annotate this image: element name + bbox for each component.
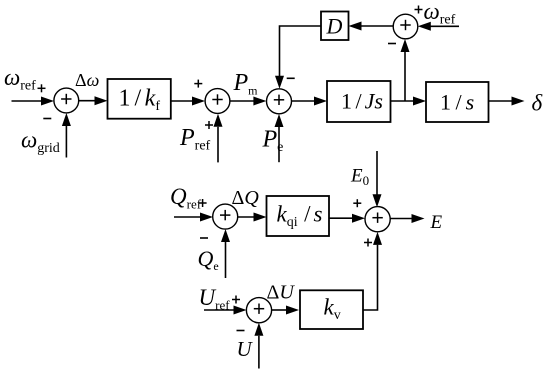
label E bbox=[430, 212, 443, 233]
summing junction S5 bbox=[213, 204, 238, 229]
block kqi/s bbox=[267, 196, 330, 236]
label Q_e bbox=[198, 246, 219, 273]
label omega_ref (left input) bbox=[4, 65, 36, 94]
minus sign at S1 bottom input bbox=[43, 118, 51, 120]
feedback wire D down to S3 bbox=[275, 26, 321, 89]
plus sign at S4 right input bbox=[415, 6, 423, 14]
summing junction S7 bbox=[246, 298, 271, 323]
block 1/s bbox=[426, 82, 489, 122]
svg-text:D: D bbox=[326, 14, 343, 39]
label P_m bbox=[233, 70, 259, 98]
label delta-U bbox=[267, 282, 296, 304]
svg-text:U: U bbox=[237, 337, 254, 361]
summing junction S3 bbox=[267, 89, 292, 114]
label omega_ref (top right) bbox=[424, 0, 456, 28]
plus sign at S2 bottom input bbox=[205, 121, 213, 129]
wire S4 to block D bbox=[349, 22, 394, 31]
wire P_ref into S2 bbox=[214, 114, 223, 163]
summing junction S4 (top right) bbox=[393, 14, 418, 39]
wire S3 to block 1/Js bbox=[292, 97, 328, 106]
wire kqi/s to S6 bbox=[329, 214, 365, 223]
wire S2 to S3 bbox=[230, 97, 266, 106]
svg-text:ΔQ: ΔQ bbox=[232, 187, 260, 209]
wire omega_grid into S1 bbox=[62, 113, 71, 158]
label U_ref bbox=[199, 285, 231, 313]
wire P_e into S3 bbox=[275, 114, 284, 162]
wire 1/s to delta output bbox=[489, 97, 525, 106]
minus sign at S3 top input bbox=[287, 77, 295, 79]
wire k_v up into S6 bbox=[363, 232, 382, 310]
plus sign at S6 left input bbox=[353, 199, 361, 207]
label delta-omega bbox=[75, 70, 99, 90]
wire Q_e into S5 bbox=[221, 229, 230, 278]
plus sign at S1 left input bbox=[38, 84, 46, 92]
svg-text:δ: δ bbox=[532, 91, 543, 116]
wire 1/Js to block 1/s with takeoff node bbox=[391, 97, 427, 106]
plus sign at S5 left input bbox=[199, 199, 207, 207]
block 1/kf bbox=[108, 79, 171, 119]
svg-text:E: E bbox=[430, 212, 443, 233]
wire S5 to block kqi/s bbox=[238, 213, 267, 222]
label U bbox=[237, 337, 254, 361]
minus sign at S5 bottom input bbox=[200, 237, 208, 239]
label delta bbox=[532, 91, 543, 116]
plus sign at S6 bottom input bbox=[364, 239, 372, 247]
block k_v bbox=[300, 290, 363, 329]
plus sign at S7 left input bbox=[232, 296, 240, 304]
label E_0 bbox=[350, 166, 369, 189]
wire U_ref into S7 bbox=[204, 306, 247, 315]
wire omega_ref into S1 bbox=[12, 97, 55, 106]
label delta-Q bbox=[232, 187, 260, 209]
minus sign at S7 bottom input bbox=[237, 330, 245, 332]
wire 1/kf to S2 bbox=[171, 97, 205, 106]
summing junction S2 bbox=[205, 89, 230, 114]
block 1/Js bbox=[327, 81, 391, 122]
summing junction S1 bbox=[54, 88, 79, 113]
wire U into S7 bbox=[254, 323, 263, 369]
minus sign at S4 bottom input bbox=[388, 43, 396, 45]
svg-text:Δω: Δω bbox=[75, 70, 99, 90]
wire E_0 into S6 bbox=[373, 151, 382, 207]
wire Q_ref into S5 bbox=[174, 213, 213, 222]
wire S1 to block 1/kf bbox=[79, 96, 108, 105]
svg-text:1/s: 1/s bbox=[440, 90, 474, 115]
svg-text:ΔU: ΔU bbox=[267, 282, 296, 304]
label Q_ref bbox=[170, 184, 202, 212]
wire takeoff up to S4 bbox=[401, 39, 410, 101]
wire S6 to E output bbox=[390, 214, 424, 223]
plus sign at S2 left input bbox=[194, 80, 202, 88]
wire S7 to block k_v bbox=[272, 306, 299, 315]
label P_ref bbox=[179, 125, 211, 154]
svg-text:1/kf: 1/kf bbox=[119, 86, 161, 115]
block D bbox=[321, 12, 349, 41]
label P_e bbox=[262, 127, 284, 156]
label omega_grid bbox=[21, 128, 60, 157]
summing junction S6 bbox=[365, 207, 390, 232]
wire omega_ref (top right) into S4 bbox=[418, 22, 459, 31]
